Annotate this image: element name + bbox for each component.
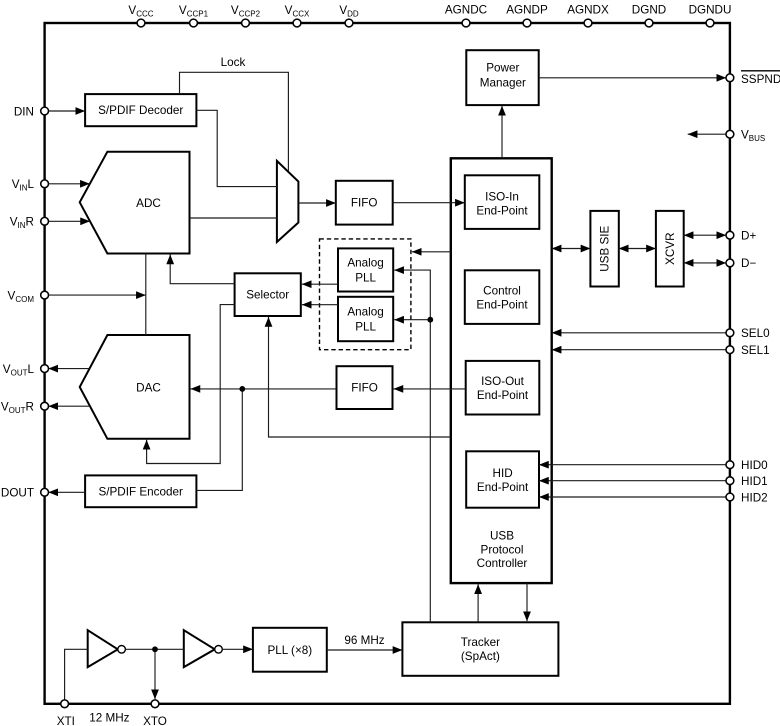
- svg-text:HID0: HID0: [741, 459, 768, 472]
- mux (input selector trapezoid): [277, 161, 299, 242]
- svg-text:Analog: Analog: [347, 257, 383, 270]
- wire USB SIE to XCVR (bidirectional): [619, 248, 656, 250]
- svg-text:Tracker: Tracker: [461, 636, 500, 649]
- svg-text:SSPND: SSPND: [741, 73, 780, 86]
- svg-text:PLL: PLL: [355, 321, 376, 334]
- svg-text:VCCP1: VCCP1: [179, 4, 209, 19]
- wire VinL to ADC: [48, 183, 90, 185]
- svg-text:PLL (×8): PLL (×8): [267, 644, 312, 657]
- block ISO-Out End-Point: [466, 361, 540, 415]
- wire DIN to S/PDIF Decoder: [48, 110, 85, 112]
- pin VoutR: [41, 402, 49, 410]
- pin DOUT: [41, 488, 49, 496]
- svg-text:SEL0: SEL0: [741, 327, 770, 340]
- wire Vbus input arrow: [688, 133, 727, 135]
- inverter A output bubble: [118, 646, 126, 654]
- svg-text:12 MHz: 12 MHz: [89, 712, 129, 725]
- svg-text:XTI: XTI: [57, 715, 75, 726]
- pin Vccp1: [190, 19, 198, 27]
- pin HID1: [726, 477, 734, 485]
- svg-text:DGNDU: DGNDU: [689, 4, 732, 17]
- svg-text:End-Point: End-Point: [477, 389, 529, 402]
- wire S/PDIF Decoder output to mux input: [196, 110, 277, 186]
- svg-text:DIN: DIN: [14, 106, 34, 119]
- svg-text:AGNDP: AGNDP: [506, 4, 548, 17]
- svg-text:VINR: VINR: [10, 216, 34, 231]
- block DAC (pentagon): [80, 335, 190, 439]
- block S/PDIF Decoder: [85, 94, 196, 126]
- junction dot tracker/PLL node: [427, 317, 433, 323]
- svg-text:XCVR: XCVR: [664, 232, 677, 264]
- wire ADC bottom to DAC top: [145, 254, 147, 336]
- wire FIFO bottom to DAC: [191, 388, 337, 390]
- block S/PDIF Encoder: [85, 475, 196, 507]
- wire Analog PLL upper to Selector: [302, 283, 338, 285]
- wire controller top to Power Manager: [501, 106, 503, 159]
- svg-text:D−: D−: [741, 257, 756, 270]
- junction dot DAC/encoder node: [239, 386, 245, 392]
- wire HID2 to HID End-Point: [539, 496, 726, 498]
- pin Vbus: [726, 130, 734, 138]
- svg-text:D+: D+: [741, 230, 756, 243]
- wire DAC to VoutR: [48, 405, 90, 407]
- wire Tracker to controller (up arrow): [477, 584, 479, 622]
- svg-text:VCCP2: VCCP2: [231, 4, 261, 19]
- pin Vcom: [41, 291, 49, 299]
- block ISO-In End-Point: [465, 175, 540, 229]
- pin SEL0: [726, 329, 734, 337]
- svg-text:FIFO: FIFO: [351, 382, 378, 395]
- svg-text:VCCC: VCCC: [128, 4, 153, 19]
- svg-text:XTO: XTO: [143, 715, 167, 726]
- svg-text:VINL: VINL: [12, 178, 35, 193]
- block PLL (x8): [253, 628, 327, 672]
- wire ISO-Out End-Point to FIFO bottom: [394, 388, 466, 390]
- svg-text:USB: USB: [490, 530, 514, 543]
- pin SEL1: [726, 346, 734, 354]
- junction dot oscillator node: [152, 646, 158, 652]
- wire Vcom to ADC-DAC line: [48, 294, 146, 296]
- svg-text:Protocol: Protocol: [481, 543, 524, 556]
- wire FIFO top to ISO-In End-Point: [393, 202, 465, 204]
- wire branch to S/PDIF Encoder: [196, 389, 242, 491]
- block Power Manager: [466, 50, 538, 105]
- svg-text:S/PDIF Encoder: S/PDIF Encoder: [98, 486, 183, 499]
- svg-text:End-Point: End-Point: [476, 204, 528, 217]
- svg-text:VOUTR: VOUTR: [1, 400, 34, 415]
- wire ADC output to mux input: [190, 217, 277, 219]
- wire controller to analog PLL group select: [412, 251, 451, 253]
- block U1 USB Protocol Controller (outer box): [451, 158, 552, 583]
- svg-text:HID2: HID2: [741, 491, 768, 504]
- svg-text:ADC: ADC: [136, 197, 161, 210]
- wire Lock: decoder top to mux select: [180, 72, 289, 171]
- svg-text:Power: Power: [486, 62, 519, 75]
- block FIFO (bottom): [337, 366, 393, 409]
- wire inverter B to PLL: [222, 648, 253, 650]
- svg-text:DGND: DGND: [632, 4, 666, 17]
- pin VinR: [41, 217, 49, 225]
- wire inverter A to inverter B: [125, 648, 183, 650]
- wire mux output to FIFO top: [298, 202, 335, 204]
- wire HID0 to HID End-Point: [539, 464, 726, 466]
- block XCVR: [656, 211, 684, 287]
- pin D+: [726, 231, 734, 239]
- svg-text:VDD: VDD: [339, 4, 359, 19]
- wire DAC to VoutL: [48, 368, 89, 370]
- pin AGNDX: [584, 19, 592, 27]
- pin D-: [726, 259, 734, 267]
- pin DGND: [645, 19, 653, 27]
- inverter B output bubble: [215, 646, 223, 654]
- wire XCVR to D- (bidirectional): [684, 262, 727, 264]
- svg-text:DOUT: DOUT: [1, 487, 34, 500]
- svg-text:S/PDIF Decoder: S/PDIF Decoder: [98, 104, 183, 117]
- overline for SSPND: [741, 70, 780, 72]
- wire junction to XTO (down arrow): [154, 649, 156, 699]
- wire Selector to DAC clock: [147, 305, 235, 464]
- svg-text:HID: HID: [493, 467, 513, 480]
- pin XTI: [61, 700, 69, 708]
- svg-text:USB SIE: USB SIE: [599, 225, 612, 271]
- inverter B triangle: [184, 630, 215, 667]
- wire Tracker up to Analog PLL upper: [394, 270, 430, 622]
- wire VinR to ADC: [48, 220, 90, 222]
- pin Vccc: [137, 19, 145, 27]
- inverter A (crystal oscillator) triangle: [88, 630, 118, 667]
- pin DGNDU: [706, 19, 714, 27]
- block FIFO (top): [336, 181, 393, 225]
- wire HID1 to HID End-Point: [539, 480, 726, 482]
- wire controller to Selector select: [269, 317, 451, 437]
- svg-text:(SpAct): (SpAct): [461, 650, 500, 663]
- svg-text:AGNDC: AGNDC: [445, 4, 487, 17]
- svg-text:End-Point: End-Point: [476, 299, 528, 312]
- svg-text:Manager: Manager: [480, 76, 526, 89]
- svg-text:End-Point: End-Point: [477, 481, 529, 494]
- block Control End-Point: [465, 270, 540, 324]
- pin DIN: [41, 107, 49, 115]
- svg-text:AGNDX: AGNDX: [567, 4, 609, 17]
- pin HID2: [726, 493, 734, 501]
- pin AGNDP: [523, 19, 531, 27]
- wire SEL1 to controller: [552, 349, 727, 351]
- wire branch to Analog PLL lower: [394, 319, 430, 321]
- svg-text:HID1: HID1: [741, 475, 768, 488]
- block USB SIE: [590, 211, 618, 287]
- wire controller to USB SIE (bidirectional): [552, 248, 591, 250]
- block Analog PLL (lower): [338, 297, 393, 341]
- svg-text:Controller: Controller: [477, 557, 528, 570]
- block ADC (pentagon): [80, 152, 190, 254]
- wire SEL0 to controller: [552, 332, 727, 334]
- dashed analog PLL group box: [320, 239, 411, 350]
- svg-text:FIFO: FIFO: [351, 197, 378, 210]
- svg-text:VBUS: VBUS: [741, 129, 765, 144]
- wire controller to Tracker (down arrow): [526, 583, 528, 621]
- svg-text:ISO-Out: ISO-Out: [481, 375, 525, 388]
- block Selector: [235, 273, 301, 316]
- svg-text:ISO-In: ISO-In: [485, 190, 519, 203]
- svg-text:PLL: PLL: [355, 272, 376, 285]
- svg-text:Control: Control: [483, 285, 521, 298]
- block Tracker (SpAct): [402, 622, 558, 676]
- wire Power Manager to SSPND: [539, 77, 727, 79]
- pin HID0: [726, 461, 734, 469]
- svg-text:VOUTL: VOUTL: [3, 363, 35, 378]
- wire PLL 96 MHz to Tracker: [327, 649, 403, 651]
- wire Analog PLL lower to Selector: [302, 304, 338, 306]
- wire Selector to ADC clock: [170, 255, 234, 284]
- svg-text:96 MHz: 96 MHz: [344, 634, 384, 647]
- pin XTO: [151, 700, 159, 708]
- pin VinL: [41, 180, 49, 188]
- block Analog PLL (upper): [338, 248, 393, 291]
- svg-text:SEL1: SEL1: [741, 344, 770, 357]
- pin Vccp2: [242, 19, 250, 27]
- block HID End-Point: [466, 451, 539, 507]
- svg-text:Lock: Lock: [221, 56, 246, 69]
- pin VoutL: [41, 365, 49, 373]
- svg-text:Selector: Selector: [246, 289, 289, 302]
- wire XCVR to D+ (bidirectional): [684, 234, 727, 236]
- wire S/PDIF Encoder to DOUT: [48, 491, 85, 493]
- pin SSPND: [726, 74, 734, 82]
- svg-text:VCOM: VCOM: [8, 290, 35, 305]
- pin AGNDC: [462, 19, 470, 27]
- pin Vdd: [345, 19, 353, 27]
- wire XTI to inverter A: [65, 649, 88, 700]
- svg-text:DAC: DAC: [136, 382, 161, 395]
- svg-text:Analog: Analog: [347, 306, 383, 319]
- svg-text:VCCX: VCCX: [285, 4, 310, 19]
- pin Vccx: [293, 19, 301, 27]
